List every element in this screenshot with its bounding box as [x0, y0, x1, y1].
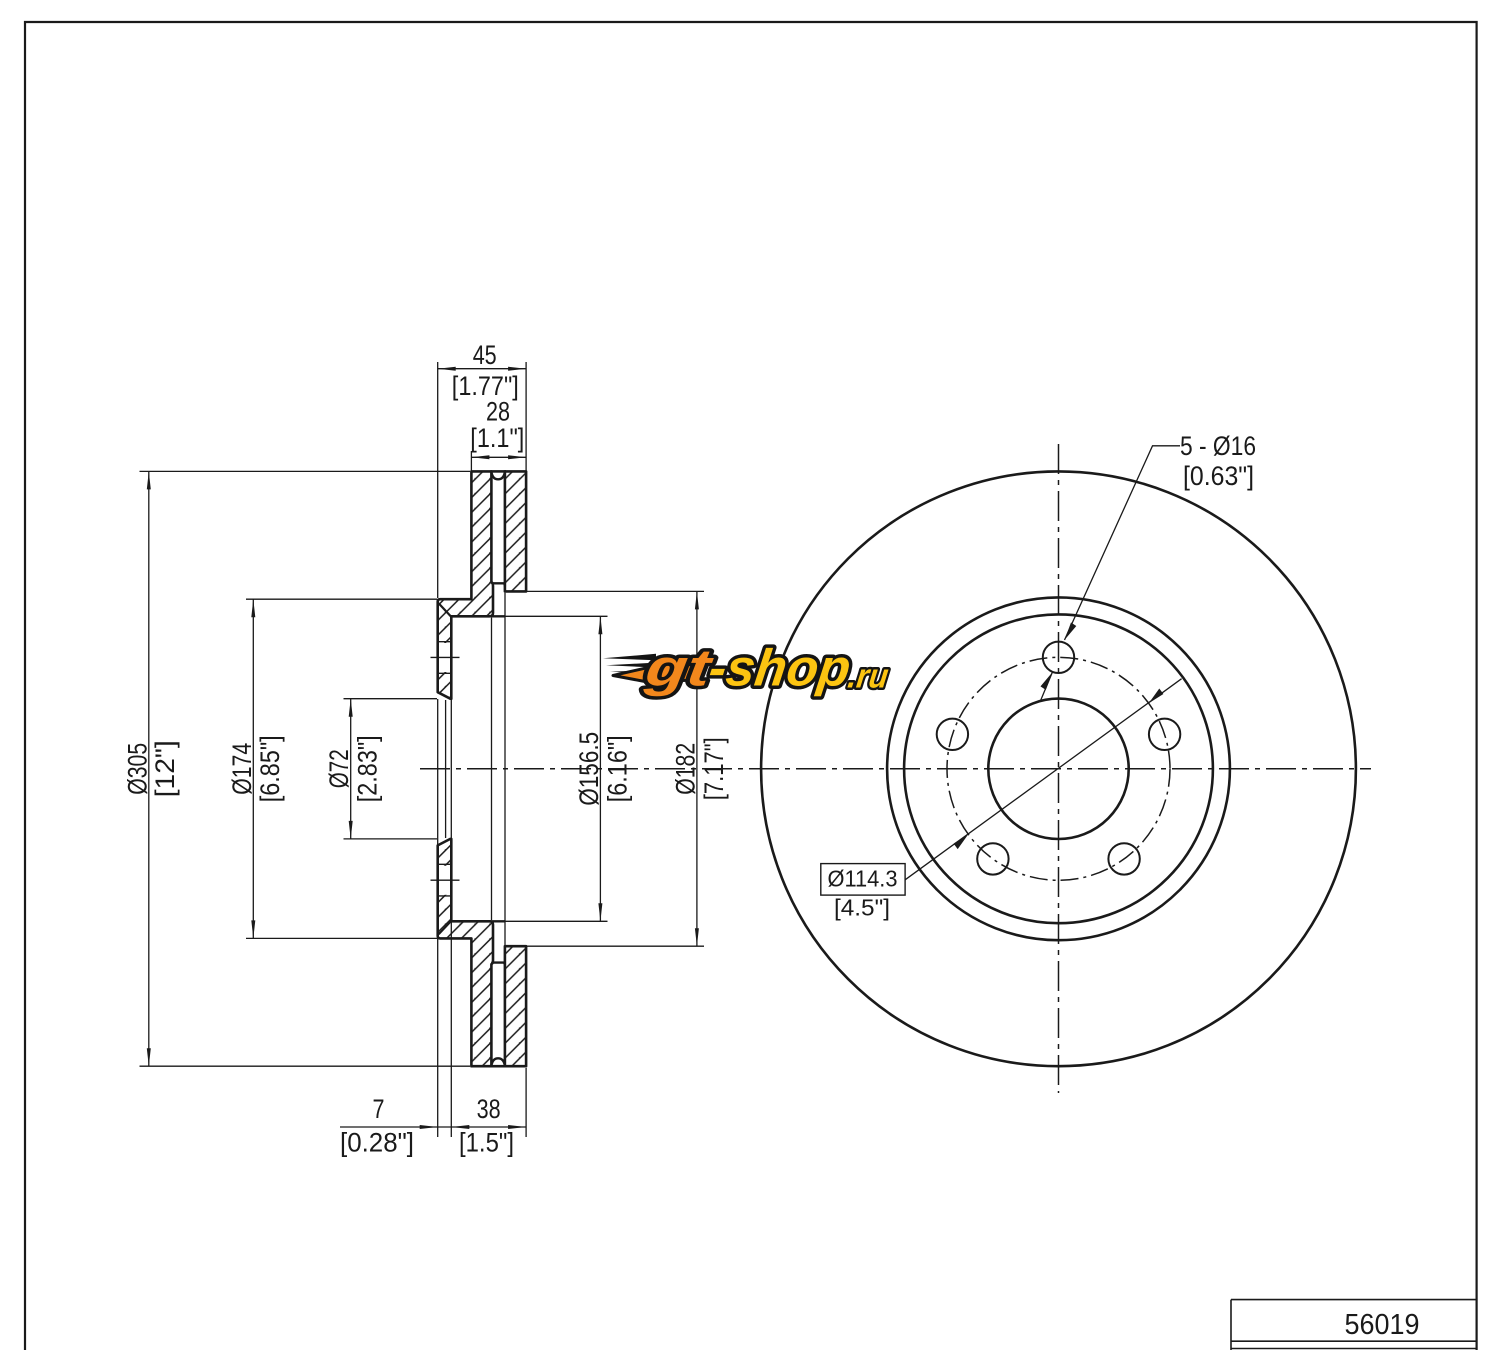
horizontal centerline [420, 768, 1371, 770]
OD face across notch (top) [490, 470, 506, 473]
svg-text:[6.85"]: [6.85"] [255, 735, 285, 802]
vane top edge (top half) [492, 583, 505, 586]
7 and 38 dim lines [340, 1126, 526, 1128]
bolt circle (dash-dot) [947, 657, 1170, 880]
gt text [641, 640, 717, 698]
title block [1231, 1300, 1477, 1350]
svg-text:[1.1"]: [1.1"] [470, 423, 524, 453]
svg-text:Ø72: Ø72 [324, 749, 354, 788]
svg-text:45: 45 [473, 340, 497, 370]
svg-text:.ru: .ru [846, 658, 891, 696]
Ø114.3 box and text [821, 864, 905, 896]
dim arrows top [438, 367, 526, 371]
Ø182 [526, 591, 704, 946]
extension lines 7/38 dims [438, 622, 526, 1137]
45 dim line [438, 368, 526, 370]
Ø156.5 [493, 616, 608, 921]
vent notch at OD (top) [491, 472, 505, 480]
vane top edge (bottom half) [492, 963, 505, 965]
svg-text:38: 38 [477, 1094, 501, 1124]
svg-text:7: 7 [373, 1094, 385, 1124]
hat outer circle [887, 597, 1230, 940]
section: outboard plate top half [505, 471, 526, 591]
svg-text:[1.5"]: [1.5"] [459, 1128, 514, 1158]
svg-text:[7.17"]: [7.17"] [699, 737, 729, 800]
bolt hole break in flange (top) [431, 642, 460, 674]
rotor outer circle [761, 471, 1356, 1066]
Ø114.3 diameter line [905, 679, 1182, 880]
svg-text:[6.16"]: [6.16"] [602, 735, 632, 802]
svg-text:[0.63"]: [0.63"] [1183, 461, 1254, 491]
vent notch at OD (bottom) [491, 1058, 505, 1066]
hat cone inner edge (top) [439, 603, 452, 617]
hat inner circle [904, 614, 1213, 923]
vertical centerline front view [1058, 444, 1060, 1093]
center bore circle [988, 699, 1128, 839]
28 dim line [471, 456, 526, 458]
svg-text:[12"]: [12"] [150, 740, 180, 797]
svg-text:Ø114.3: Ø114.3 [828, 866, 898, 892]
svg-text:-shop: -shop [705, 640, 854, 698]
bolt holes [937, 642, 1181, 875]
svg-text:Ø305: Ø305 [122, 743, 152, 795]
section: outboard plate bottom half [505, 946, 526, 1066]
svg-text:Ø156.5: Ø156.5 [574, 732, 604, 806]
svg-text:Ø174: Ø174 [227, 743, 257, 795]
svg-text:56019: 56019 [1345, 1309, 1420, 1341]
svg-text:5 - Ø16: 5 - Ø16 [1180, 431, 1256, 461]
Ø174 [246, 599, 437, 938]
OD face across notch (bottom) [490, 1065, 506, 1068]
svg-text:[2.83"]: [2.83"] [353, 735, 383, 802]
svg-text:Ø182: Ø182 [670, 743, 700, 795]
hat wall lower face full extent (top) [489, 615, 506, 617]
dim arrows bottom [420, 1125, 438, 1129]
svg-text:[4.5"]: [4.5"] [834, 894, 890, 920]
Ø72 [344, 699, 438, 839]
hat cone inner edge (bottom) [439, 921, 452, 935]
Ø305 [140, 471, 471, 1066]
section: left mass (inboard plate + hat) top half [438, 471, 493, 698]
leader 5-Ø16 [1065, 446, 1181, 640]
.ru text [846, 658, 891, 696]
extension lines 45/28 dims [438, 362, 526, 598]
section: left mass bottom half (mirror) [438, 839, 493, 1066]
hat wall lower face full extent (bottom) [489, 920, 506, 922]
bolt hole break in flange (bottom) [431, 864, 460, 896]
speed lines [603, 654, 656, 660]
-shop text [705, 640, 854, 698]
swoosh wedge [613, 658, 706, 682]
vent channel silhouette lines [446, 593, 505, 945]
svg-text:[0.28"]: [0.28"] [340, 1128, 414, 1158]
